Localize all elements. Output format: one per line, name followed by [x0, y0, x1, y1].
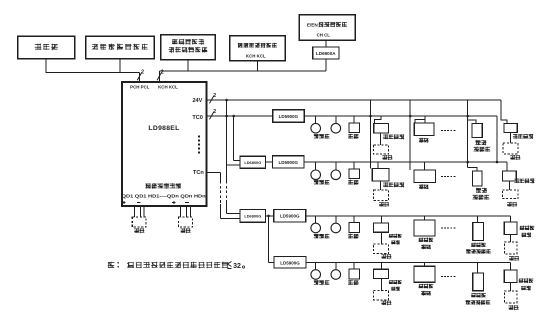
label 两线制区显 row3: [419, 238, 433, 249]
wire TCn vertical (dashed continuation): [221, 173, 241, 219]
label 手报 row2: [348, 180, 358, 184]
dashes row1: [441, 130, 457, 132]
peripheral 外设 row3-b: [504, 234, 518, 260]
wire 24V feed V3 with jogs: [466, 100, 476, 171]
loop isolator LD5900G row2: [273, 156, 304, 168]
wire 24V feed V1: [369, 100, 372, 168]
label 直接输出节点: [146, 184, 181, 189]
sounder 声光警报器 row1: [472, 123, 482, 137]
label terminals QD/HD: [122, 193, 206, 198]
two-wire zone display 两线制区显 row3: [414, 216, 435, 236]
peripheral box 外设 (left): [132, 217, 146, 233]
svg-text:2: 2: [141, 70, 144, 76]
wire LD6900A drop: [325, 59, 327, 71]
peripheral box 外设 (right): [179, 217, 193, 233]
wire KCH drop into panel: [158, 71, 160, 82]
detector circles row1: [311, 116, 341, 133]
linkage module 联动模块 row2: [372, 162, 389, 181]
wire E/EN to LD6900A: [325, 40, 327, 47]
peripheral 外设 row3-a: [374, 232, 392, 258]
dashes row3: [441, 227, 457, 229]
svg-text:2: 2: [213, 93, 216, 99]
label 联动模块 row1: [383, 135, 404, 140]
label 两线制区显 row4: [419, 284, 433, 295]
ellipsis dashed (more loops): [198, 136, 200, 154]
wire vertical A branch to row2 isolator: [227, 164, 240, 166]
detector circles row4: [311, 262, 341, 279]
short-circuit isolator LD6800G row3: [240, 210, 266, 223]
two-wire sounder row3: [473, 216, 484, 241]
linkage module 联动模块 row1: [374, 116, 389, 133]
peripheral 外设 row4-a: [374, 279, 392, 305]
wire 24V bus: [207, 99, 501, 101]
pin TC0: [192, 115, 203, 121]
label 手报 row1: [348, 134, 358, 138]
cable mark 2 (TC0): [210, 109, 217, 120]
cable mark 2 (PCH): [137, 70, 144, 81]
wire KCH bus: [159, 70, 325, 72]
svg-text:LD6800G: LD6800G: [244, 160, 261, 165]
block LD6900A: [313, 47, 339, 59]
svg-text:2: 2: [161, 70, 164, 76]
wire 气体灭火控制器 drop: [119, 59, 121, 73]
junction dots: [225, 99, 235, 118]
dashes row4: [441, 276, 457, 278]
pin TCn: [193, 170, 204, 176]
label 两线制模块 row3: [389, 234, 401, 244]
svg-text:24V: 24V: [192, 98, 202, 104]
dashes row2: [441, 176, 457, 178]
wires direct-output group1: [134, 206, 144, 217]
two-wire module 两线制模块 row3: [374, 216, 389, 232]
wire TC0 bus: [207, 115, 498, 117]
wires direct-output group2: [181, 206, 191, 217]
svg-text:LD5900G: LD5900G: [280, 214, 300, 219]
svg-text:PCH PCL: PCH PCL: [130, 84, 150, 89]
label PCH PCL: [130, 84, 150, 89]
svg-text:TCn: TCn: [193, 170, 204, 176]
svg-text:TC0: TC0: [192, 115, 203, 121]
sounder 声光警报器 row2: [472, 171, 482, 186]
two-wire sounder row4: [473, 262, 484, 291]
detector circles row2: [311, 162, 341, 180]
peripheral 外设 row4-b: [504, 283, 518, 310]
peripheral 外设 row1-b: [503, 133, 520, 160]
label 手报 row4: [348, 280, 358, 284]
wire vertical A from 24V bus: [227, 100, 240, 213]
svg-text:LD6800G: LD6800G: [244, 214, 261, 219]
note 1只短路保护器后所带设备数量<=32: [108, 262, 244, 271]
peripheral 外设 row2-b: [502, 181, 518, 206]
peripheral 外设 row1-a: [374, 133, 392, 160]
wire PCH drop into panel: [139, 72, 141, 82]
linkage module 联动模块 row2 right: [502, 162, 516, 181]
peripheral 外设 row2-a: [374, 181, 389, 206]
wire 联动盘 drop: [45, 59, 47, 73]
wire TCn out: [207, 172, 221, 174]
label 声光警报器 row2: [473, 188, 489, 199]
svg-text:CH CL: CH CL: [317, 33, 331, 38]
block 消防控制室图形显示装置: [161, 35, 216, 60]
loop isolator LD5900G row4: [274, 257, 306, 269]
label 联动模块 row2: [383, 183, 404, 188]
label + -: [123, 201, 189, 204]
label 探测器 row1: [314, 134, 329, 138]
label 手报 row3: [348, 234, 358, 238]
label 区显 row1: [419, 138, 428, 142]
cable mark 2 (24V): [210, 93, 217, 104]
label 两线制模块 row4: [389, 280, 401, 290]
short-circuit isolator LD6800G row2: [240, 156, 266, 168]
label 探测器 row2: [314, 180, 329, 184]
block 气体灭火控制器: [86, 36, 155, 59]
svg-text:LD6900A: LD6900A: [316, 51, 336, 56]
manual call point 手报 row3: [349, 216, 360, 233]
wire link row3 + branch node: [266, 215, 274, 218]
label 声光警报器 row1: [474, 140, 490, 151]
svg-text:E/EN: E/EN: [307, 22, 319, 27]
zone display 区显 row1: [414, 116, 434, 136]
svg-text:KCH KCL: KCH KCL: [158, 84, 178, 89]
two-wire module 两线制模块 row4: [374, 262, 389, 278]
manual call point 手报 row2: [349, 162, 360, 179]
zone display 区显 row2: [414, 162, 436, 183]
wire 24V feed V2: [409, 100, 412, 170]
label 联动模块 row2 right: [514, 179, 534, 183]
svg-text:LD5900G: LD5900G: [279, 160, 299, 165]
wire row1-bus end down to row2: [496, 116, 499, 163]
manual call point 手报 row1: [349, 116, 360, 133]
manual call point 手报 row4: [349, 262, 360, 279]
wire row2 bus: [304, 161, 507, 163]
svg-text:2: 2: [213, 109, 216, 115]
wire link row2: [266, 161, 273, 163]
label 两线制模块 row3 right: [520, 226, 534, 237]
label 两线制声光警报器 row3: [467, 243, 491, 254]
label 探测器 row4: [314, 280, 329, 284]
wire PCH bus: [46, 71, 140, 73]
svg-text:QD1 QD1 HD1----QDn QDn HDn: QD1 QD1 HD1----QDn QDn HDn: [122, 193, 206, 198]
svg-text:32: 32: [233, 263, 241, 270]
wire row4 bus: [306, 261, 510, 263]
two-wire module 两线制模块 row3 right: [504, 216, 517, 235]
two-wire zone display 两线制区显 row4: [414, 262, 435, 282]
wire row3 bus: [306, 215, 511, 217]
svg-text:LD5900G: LD5900G: [280, 261, 300, 266]
block E/EN系列控制器 CH CL: [299, 15, 355, 41]
cable mark 2 (KCH): [157, 70, 164, 81]
svg-text:LD988EL: LD988EL: [148, 125, 179, 132]
loop isolator LD5900G row1: [273, 110, 305, 122]
detector circles row3: [311, 216, 341, 233]
label 探测器 row3: [314, 234, 329, 238]
loop isolator LD5900G row3: [274, 209, 306, 222]
label 区显 row2: [419, 185, 428, 189]
label KCH KCL: [158, 84, 178, 89]
label 联动模块 row1 right: [513, 134, 533, 138]
controller panel LD988EL: [122, 82, 207, 206]
pin 24V: [192, 98, 202, 104]
svg-text:LD5900G: LD5900G: [279, 114, 299, 119]
block 联动盘: [18, 36, 75, 59]
svg-text:KCH KCL: KCH KCL: [246, 53, 266, 58]
label LD988EL: [148, 125, 179, 132]
label 两线制声光警报器 row4: [466, 293, 490, 304]
wire branch down to row4: [269, 216, 275, 262]
wire 标准化后控制器 drop: [257, 61, 259, 71]
linkage module 联动模块 row1 right: [504, 124, 517, 133]
label 两线制模块 row4 right: [519, 279, 533, 291]
wire vertical B TC0 to row2 isolator: [234, 116, 240, 161]
wire 24V bus end staircase: [501, 100, 507, 124]
wire 消防控制室 drop: [187, 60, 189, 72]
two-wire module 两线制模块 row4 right: [504, 262, 517, 282]
block 标准化后控制器 KCH KCL: [230, 36, 285, 61]
